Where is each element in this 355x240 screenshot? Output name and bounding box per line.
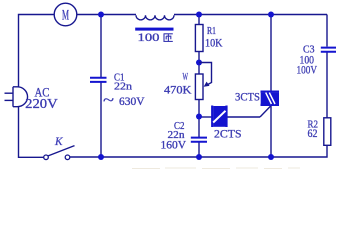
node junction bottom triac: [268, 154, 274, 160]
svg-text:630V: 630V: [119, 96, 145, 108]
triac V1 top bar: [261, 90, 280, 92]
svg-text:W: W: [183, 72, 189, 83]
node junction top R1: [196, 12, 202, 18]
svg-text:220V: 220V: [25, 96, 58, 111]
wire top rail coil to right corner: [174, 14, 327, 16]
wire C2 top lead: [198, 117, 200, 138]
inductor L1 coil arcs: [136, 15, 174, 20]
wire R1 bottom lead to node: [198, 52, 200, 75]
capacitor C1 plates: [90, 78, 107, 82]
wire R1 top lead: [198, 15, 200, 25]
svg-text:M: M: [62, 8, 69, 24]
svg-text:~: ~: [103, 93, 114, 109]
svg-text:R1: R1: [207, 26, 216, 37]
potentiometer W body: [195, 74, 203, 100]
plug AC mains: [5, 87, 28, 107]
svg-text:22n: 22n: [114, 81, 133, 93]
wire diac to gate bend: [227, 116, 260, 118]
potentiometer W wiper arrowhead: [204, 82, 210, 87]
diac D1 left bar: [211, 106, 213, 128]
svg-text:160V: 160V: [161, 139, 187, 151]
node junction top C1: [98, 12, 104, 18]
wire C2 bottom lead: [198, 142, 200, 157]
svg-text:100: 100: [138, 32, 160, 44]
wire node to diac: [199, 116, 212, 118]
inductor L1 iron core bar: [135, 28, 173, 31]
capacitor C3 plates: [321, 48, 336, 52]
svg-text:2CTS: 2CTS: [214, 127, 242, 141]
wire W bottom lead to node: [198, 100, 200, 117]
svg-text:100V: 100V: [297, 63, 318, 77]
svg-text:62: 62: [308, 128, 318, 140]
wire top rail motor to coil: [77, 14, 136, 16]
wire R2 to bottom corner: [271, 145, 327, 157]
wire triac gate diagonal: [260, 106, 271, 117]
svg-text:3CTS: 3CTS: [235, 89, 260, 103]
wire right rail down to C3: [326, 15, 328, 47]
capacitor C2 plates: [191, 138, 207, 142]
wire bottom rail middle: [70, 156, 271, 158]
diac D1 right bar: [225, 106, 227, 128]
triac V1 bottom bar: [261, 104, 280, 106]
wire triac branch top: [270, 15, 272, 92]
diac D1 white separation: [213, 111, 225, 123]
node junction W-diac: [196, 114, 202, 120]
node junction bottom C2: [196, 154, 202, 160]
node junction R1-W wiper: [196, 60, 202, 66]
switch K lever: [48, 146, 75, 156]
wire triac branch bottom: [270, 106, 272, 157]
potentiometer W wiper wire: [199, 63, 212, 86]
triac V1 body triangles: [261, 93, 279, 104]
motor M1 circle: [54, 3, 77, 26]
wire C1 branch top: [100, 15, 102, 78]
svg-text:10K: 10K: [205, 38, 223, 50]
wire C3 to R2: [326, 53, 328, 118]
svg-text:K: K: [54, 136, 64, 148]
wire bottom rail left of switch: [19, 107, 44, 157]
resistor R2 body: [324, 118, 331, 146]
faint cropped caption at bottom: [132, 167, 300, 170]
node junction top triac: [268, 12, 274, 18]
wire top rail left segment: [19, 15, 55, 87]
switch K contacts: [44, 155, 49, 160]
triac V1 white separation slashes: [266, 93, 275, 104]
svg-text:470K: 470K: [164, 84, 192, 96]
resistor R1 body: [195, 25, 203, 52]
diac D1 body triangles: [213, 106, 225, 127]
node junction bottom C1: [98, 154, 104, 160]
wire C1 branch bottom: [100, 83, 102, 158]
CJK glyph zā (turns) drawn as strokes: [164, 34, 173, 42]
